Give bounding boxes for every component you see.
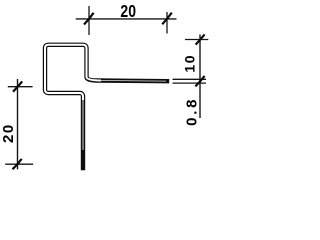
right middle extension bar lower (173, 82, 207, 84)
svg-text:20: 20 (120, 3, 136, 22)
right top extension bar (185, 39, 208, 41)
right top tick (196, 34, 205, 44)
right middle extension bar upper (173, 78, 207, 80)
left bottom tick (13, 159, 22, 169)
svg-text:20: 20 (0, 123, 17, 143)
top left extension line (88, 6, 90, 35)
svg-text:10: 10 (181, 54, 197, 73)
right dimension line (199, 35, 201, 119)
top right extension line (166, 12, 168, 34)
left top extension bar (8, 86, 33, 88)
sheet-metal profile outline (double line cross-section) (45, 45, 169, 170)
left bottom extension bar (5, 163, 33, 165)
top dimension line (76, 18, 177, 20)
svg-text:0.8: 0.8 (183, 97, 200, 126)
right middle tick (195, 76, 204, 86)
left top tick (13, 81, 22, 91)
top left tick (84, 13, 94, 25)
left dimension line (17, 79, 19, 169)
top right tick (162, 13, 172, 25)
